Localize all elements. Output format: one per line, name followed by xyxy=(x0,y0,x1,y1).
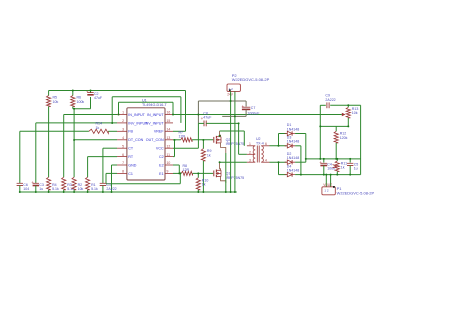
C7 ref label xyxy=(251,106,256,110)
wire VCC riser upper xyxy=(197,101,199,123)
wire output minus rail xyxy=(301,174,361,176)
U2 pin 3 stub xyxy=(247,158,255,162)
U1 pin 9 name xyxy=(159,172,163,176)
svg-text:1N4148: 1N4148 xyxy=(287,156,299,160)
U1 pin 15 name xyxy=(145,121,165,125)
wire R9 top lead xyxy=(202,140,204,149)
svg-text:1N4148: 1N4148 xyxy=(287,140,299,144)
wire R5 to R4 xyxy=(48,107,50,178)
C6 labels xyxy=(23,183,29,191)
R14 labels xyxy=(96,122,103,130)
svg-text:1N4148: 1N4148 xyxy=(287,169,299,173)
Q1 source lead xyxy=(221,176,226,183)
connector P2 body xyxy=(227,84,240,91)
wire to pin1 IN+ xyxy=(64,114,117,116)
svg-text:12R: 12R xyxy=(179,135,186,139)
svg-text:2A222: 2A222 xyxy=(325,98,335,102)
svg-text:C7: C7 xyxy=(251,106,256,110)
R13 labels xyxy=(352,107,359,115)
diode D4 xyxy=(285,172,295,176)
svg-text:120k: 120k xyxy=(340,136,348,140)
svg-text:1k: 1k xyxy=(341,166,345,170)
Q1 labels xyxy=(226,172,245,180)
U1 pin 3 name xyxy=(128,130,133,134)
wire R1 bottom xyxy=(87,190,89,192)
svg-text:5.1k: 5.1k xyxy=(91,187,98,191)
wire C5 bottom lead xyxy=(349,166,351,175)
wire C3 bottom xyxy=(35,186,37,193)
svg-text:3: 3 xyxy=(122,128,124,132)
wire C2 top lead xyxy=(90,91,92,93)
wire pin11 stubext xyxy=(173,156,175,158)
wire D3-D4 join xyxy=(300,146,302,175)
svg-text:2A222: 2A222 xyxy=(106,187,116,191)
wire R3 bottom xyxy=(63,190,65,192)
P2 value label xyxy=(232,77,270,82)
svg-text:WJ2EDGVC-5.08-2P: WJ2EDGVC-5.08-2P xyxy=(337,190,375,195)
svg-text:13: 13 xyxy=(167,136,171,140)
wire down to D4 xyxy=(278,162,280,174)
svg-text:GND: GND xyxy=(128,163,136,167)
wire to D4 anode xyxy=(279,174,287,176)
transformer U2 core xyxy=(257,146,259,163)
diode D2 xyxy=(285,160,295,164)
U1 pin 12 number xyxy=(167,144,171,148)
wire sources to ground xyxy=(225,153,227,192)
U1 pin 5 stub xyxy=(117,147,127,149)
wire to pin2 INV xyxy=(36,122,117,124)
svg-text:3: 3 xyxy=(249,158,251,162)
P1 reference label xyxy=(337,186,343,191)
P2 reference label xyxy=(232,73,238,78)
Q2 drain lead xyxy=(220,131,221,137)
svg-text:47uF: 47uF xyxy=(203,116,212,120)
svg-text:C1: C1 xyxy=(128,172,133,176)
wire 24V rail xyxy=(198,100,246,102)
wire RT xyxy=(88,156,117,158)
Q1 drain lead xyxy=(220,162,221,171)
capacitor C9 xyxy=(201,116,207,126)
wire D2 cathode xyxy=(295,161,306,163)
wire R2 bottom xyxy=(73,190,75,192)
wire C9 right lead xyxy=(206,122,238,124)
resistor R10 xyxy=(196,178,200,190)
wire C1 bottom xyxy=(102,186,104,193)
C3 labels xyxy=(39,183,44,191)
wire FB left xyxy=(20,130,89,132)
R6 labels xyxy=(77,96,85,104)
wire D1-D2 join xyxy=(305,134,307,163)
U1 pin 9 number xyxy=(167,170,169,174)
resistor R12 xyxy=(334,131,338,143)
wire feedback to R13 wiper xyxy=(173,114,342,116)
wire pin13 to R7 xyxy=(173,139,181,141)
svg-text:VOUT: VOUT xyxy=(323,183,332,187)
wire pin15 riser xyxy=(180,97,182,123)
U1 pin 4 number xyxy=(122,136,124,140)
wire to D1 anode xyxy=(279,133,287,135)
svg-text:VCC: VCC xyxy=(156,147,164,151)
U1 pin 13 number xyxy=(167,136,171,140)
wire R12 top net xyxy=(320,125,348,127)
wire FB to C6 xyxy=(19,131,21,183)
svg-text:8: 8 xyxy=(122,170,124,174)
svg-text:47uF: 47uF xyxy=(94,96,103,100)
resistor R4 xyxy=(47,177,51,190)
U1 pin 12 stub xyxy=(165,147,173,149)
U1 pin 6 number xyxy=(122,153,124,157)
wire GND drop xyxy=(111,165,113,192)
svg-text:100k: 100k xyxy=(77,100,85,104)
svg-text:E2: E2 xyxy=(159,163,163,167)
U1 pin 13 stub xyxy=(165,139,173,141)
wire C6 bottom xyxy=(19,186,21,193)
wire C5 top lead xyxy=(349,159,351,163)
wire GND pin stub xyxy=(112,164,118,166)
U1 pin 6 name xyxy=(128,155,134,159)
svg-text:1N4148: 1N4148 xyxy=(287,127,299,131)
D3 labels xyxy=(287,136,299,144)
wire CT to C1 xyxy=(102,148,104,183)
U1 pin 11 name xyxy=(159,155,164,159)
wire R13 bottom lead xyxy=(347,118,349,127)
wire R6-C2 junction xyxy=(73,108,91,110)
wire VREF top rail xyxy=(49,90,186,92)
svg-text:TX-4: TX-4 xyxy=(256,141,264,145)
wire pin8 down xyxy=(105,173,107,183)
wire CT xyxy=(103,147,117,149)
svg-text:10k: 10k xyxy=(53,100,59,104)
wire VREF riser xyxy=(185,91,187,132)
U1 pin 2 name xyxy=(128,121,148,125)
svg-text:TL494G-D16-T: TL494G-D16-T xyxy=(142,103,168,107)
svg-text:16: 16 xyxy=(167,111,171,115)
U1 pin 11 stub xyxy=(165,156,173,158)
diode D1 xyxy=(285,131,295,135)
wire R13 top lead xyxy=(347,105,349,107)
transistor Q1 xyxy=(214,170,221,178)
resistor R3 xyxy=(62,177,66,190)
wire R4 bottom xyxy=(48,190,50,192)
Q2 source lead xyxy=(221,143,226,154)
U1 pin 2 number xyxy=(122,119,124,123)
U1 pin 8 stub xyxy=(117,172,127,174)
wire softstart to R2/DT xyxy=(73,109,75,178)
svg-text:1k: 1k xyxy=(96,126,100,130)
P1 pin labels xyxy=(324,188,329,192)
U1 pin 14 stub xyxy=(165,130,173,132)
P2 pin1 dot xyxy=(229,89,231,91)
R11 labels xyxy=(341,161,347,169)
wire C7 top lead xyxy=(245,101,247,107)
transformer U2 labels xyxy=(256,137,264,145)
svg-text:10k: 10k xyxy=(352,111,358,115)
svg-text:7: 7 xyxy=(122,161,124,165)
U1 pin 3 stub xyxy=(117,130,127,132)
R3 labels xyxy=(67,183,74,191)
U1 pin 7 stub xyxy=(117,164,127,166)
wire pin11 riser xyxy=(174,140,176,157)
svg-text:+: + xyxy=(86,89,89,94)
wire pin16 over IC xyxy=(119,101,174,103)
wire R12 bottom lead xyxy=(335,143,337,159)
svg-text:14: 14 xyxy=(167,128,171,132)
resistor R8 xyxy=(181,171,192,175)
P1 value label xyxy=(337,190,375,195)
svg-text:C2: C2 xyxy=(159,155,164,159)
wire junction dots xyxy=(19,90,351,194)
wire C4 top lead xyxy=(323,159,325,163)
wire VCC riser lower xyxy=(197,123,199,148)
wire R11 bottom lead xyxy=(336,172,338,175)
svg-text:1 2: 1 2 xyxy=(324,188,329,192)
svg-text:RT: RT xyxy=(128,155,134,159)
capacitor C7 xyxy=(242,104,251,110)
IC U1 TL494G-D16-T body xyxy=(127,108,165,180)
wire Q1 drain to primary xyxy=(220,161,247,163)
C7 value label xyxy=(247,111,260,115)
U1 pin 10 number xyxy=(167,161,171,165)
wire primary top drop xyxy=(243,131,245,146)
wire DT_CON xyxy=(74,139,117,141)
wire pin16 down to pin1 xyxy=(118,102,120,114)
U1 pin 5 number xyxy=(122,144,124,148)
transistor Q2 xyxy=(214,136,221,144)
U1 pin 4 stub xyxy=(117,139,127,141)
resistor R14 xyxy=(89,129,108,133)
U2 pin 2 stub xyxy=(247,151,255,155)
wire R10 bottom xyxy=(197,190,199,192)
resistor R9 xyxy=(201,149,205,161)
svg-text:IN_INPUT: IN_INPUT xyxy=(128,113,145,117)
wire P2 pin2 ground xyxy=(234,91,236,192)
D2 labels xyxy=(287,152,299,160)
svg-text:1: 1 xyxy=(249,142,251,146)
svg-text:1: 1 xyxy=(122,111,124,115)
wire center tap riser xyxy=(238,123,240,154)
svg-text:10: 10 xyxy=(167,161,171,165)
svg-text:1000uF: 1000uF xyxy=(247,111,260,115)
R10 labels xyxy=(202,178,209,186)
R8 labels xyxy=(183,164,190,172)
U1 pin 16 number xyxy=(167,111,171,115)
U1 pin 5 name xyxy=(128,147,134,151)
wire center tap xyxy=(239,153,247,155)
svg-text:12: 12 xyxy=(167,144,171,148)
D1 labels xyxy=(287,123,299,131)
svg-text:WJ2EDGVC-5.08-2P: WJ2EDGVC-5.08-2P xyxy=(232,77,270,82)
wire R8 to Q1 gate xyxy=(193,172,214,174)
wire pin15 down to pin2 xyxy=(111,97,113,123)
svg-text:1k: 1k xyxy=(202,183,206,187)
wire RT to R1 xyxy=(87,157,89,178)
resistor R6 xyxy=(71,96,75,107)
C2 labels xyxy=(94,92,103,100)
U2 pin 4 stub xyxy=(261,158,269,162)
wire C8 to right loop xyxy=(330,104,360,106)
resistor R5 top lead xyxy=(48,91,50,96)
wire VCC xyxy=(173,147,198,149)
U1 pin 11 number xyxy=(167,153,171,157)
U1 pin 10 name xyxy=(159,163,163,167)
svg-text:6: 6 xyxy=(265,142,267,146)
wire pin15 over IC xyxy=(112,96,181,98)
resistor R7 xyxy=(181,138,192,142)
U1 pin 6 stub xyxy=(117,156,127,158)
wire secondary top to D3 xyxy=(270,145,287,147)
wire Q2 drain to primary xyxy=(220,130,245,132)
resistor R11 xyxy=(335,161,339,172)
wire secondary bot to D2 xyxy=(270,161,287,163)
wire R6 bottom xyxy=(72,107,74,109)
resistor R1 xyxy=(86,177,90,190)
U1 pin 13 name xyxy=(146,138,164,142)
wire output plus rail xyxy=(306,158,361,160)
capacitor C1 xyxy=(100,183,106,185)
U1 pin 2 stub xyxy=(117,122,127,124)
wire pin9 to R8 xyxy=(173,172,181,174)
resistor R13 xyxy=(346,107,350,118)
wire C4 bottom lead xyxy=(323,166,325,175)
svg-text:E1: E1 xyxy=(159,172,163,176)
svg-text:15: 15 xyxy=(167,119,171,123)
wire VREF stub extension xyxy=(173,130,186,132)
wire R12 top lead xyxy=(335,126,337,131)
U1 pin 9 stub xyxy=(165,172,173,174)
P2 net label 24V xyxy=(227,93,234,97)
wire D1 cathode xyxy=(295,133,306,135)
wire D4 cathode xyxy=(295,174,301,176)
wire pin8 up to E1 net xyxy=(179,173,181,183)
svg-text:5.1k: 5.1k xyxy=(52,187,59,191)
U1 pin 8 number xyxy=(122,170,124,174)
U1 pin 15 number xyxy=(167,119,171,123)
U1 pin 14 name xyxy=(154,130,164,134)
svg-text:2: 2 xyxy=(249,151,251,155)
C1 labels xyxy=(106,183,116,191)
P1 pin1 dot xyxy=(333,186,335,188)
wire pin16 riser xyxy=(172,102,174,114)
wire ground rail xyxy=(20,191,237,193)
svg-text:5: 5 xyxy=(122,144,124,148)
transformer U2 primary coil xyxy=(253,146,255,162)
wire to C8 xyxy=(320,104,326,106)
svg-text:1k: 1k xyxy=(207,153,211,157)
C4 labels xyxy=(327,162,335,170)
svg-text:+: + xyxy=(319,160,322,165)
R12 labels xyxy=(340,132,348,140)
wire P1 pin1 drop xyxy=(325,175,327,187)
R4 labels xyxy=(52,183,59,191)
wire up to D1 xyxy=(278,134,280,146)
C5 labels xyxy=(354,162,359,170)
U1 pin 7 name xyxy=(128,163,136,167)
svg-text:INV_INPUT: INV_INPUT xyxy=(145,121,165,125)
diode D3 xyxy=(285,144,295,148)
svg-text:CT: CT xyxy=(128,147,134,151)
connector P1 body xyxy=(322,187,335,195)
Q2 labels xyxy=(226,138,245,146)
U1 pin 15 stub xyxy=(165,122,173,124)
transformer U2 secondary coil xyxy=(261,146,263,162)
capacitor C8 xyxy=(327,102,329,108)
R1 labels xyxy=(91,183,98,191)
svg-text:2: 2 xyxy=(122,119,124,123)
svg-text:1u: 1u xyxy=(354,167,358,171)
U1 pin 16 stub xyxy=(165,114,173,116)
U1 pin 16 name xyxy=(147,113,164,117)
wire pin10 riser xyxy=(178,165,180,173)
U1 pin 1 name xyxy=(128,113,145,117)
svg-text:VREF: VREF xyxy=(154,130,164,134)
wire C7 to ground xyxy=(222,115,246,117)
svg-text:11: 11 xyxy=(167,153,171,157)
U1 pin 7 number xyxy=(122,161,124,165)
D4 labels xyxy=(287,164,299,172)
U1 reference label xyxy=(142,98,147,102)
wire R14 to FB pin xyxy=(108,130,117,132)
resistor R2 xyxy=(72,177,76,190)
svg-text:IN_INPUT: IN_INPUT xyxy=(147,113,164,117)
svg-text:4: 4 xyxy=(122,136,124,140)
wire pin1 to R3 xyxy=(63,115,65,178)
R7 labels xyxy=(179,130,186,138)
U1 pin 3 number xyxy=(122,128,124,132)
wire P1 pin2 drop xyxy=(330,175,332,187)
svg-text:9: 9 xyxy=(167,170,169,174)
P1 net label xyxy=(323,183,332,187)
U1 pin 4 name xyxy=(128,138,143,142)
U1 pin 1 stub xyxy=(117,114,127,116)
feedback wiper arrow xyxy=(342,113,346,116)
P2 pin labels xyxy=(229,87,234,91)
capacitor C6 xyxy=(17,183,23,185)
wire D3 cathode xyxy=(295,145,301,147)
R9 labels xyxy=(207,149,212,157)
U2 pin 1 stub xyxy=(247,142,255,146)
svg-text:1u: 1u xyxy=(39,187,43,191)
capacitor C5 xyxy=(347,163,353,165)
wire R9 bottom xyxy=(202,161,204,192)
U1 pin 1 number xyxy=(122,111,124,115)
U1 pin 14 number xyxy=(167,128,171,132)
C8b labels xyxy=(203,111,212,119)
R5 labels xyxy=(53,96,59,104)
wire pin2 to C3 xyxy=(35,123,37,183)
R11 wiper arrow xyxy=(333,165,337,168)
U1 pin 10 stub xyxy=(165,164,173,166)
wire right edge loop xyxy=(360,105,362,174)
resistor R6 top lead xyxy=(72,91,74,96)
resistor R5 xyxy=(47,96,51,107)
wire R11 top lead xyxy=(336,159,338,161)
wire C9 left lead xyxy=(198,122,204,124)
wire C7 bottom lead xyxy=(245,109,247,116)
U1 pin 12 name xyxy=(156,147,164,151)
svg-text:DT_CON: DT_CON xyxy=(128,138,143,142)
U1 value label xyxy=(142,103,168,107)
svg-text:4: 4 xyxy=(265,158,267,162)
capacitor C3 xyxy=(31,180,39,186)
svg-text:FB: FB xyxy=(128,130,133,134)
wire R10 top lead xyxy=(197,173,199,177)
svg-text:OUT_CON: OUT_CON xyxy=(146,138,164,142)
capacitor C2 xyxy=(86,89,94,95)
wire R7 to Q2 gate xyxy=(192,139,213,141)
R2 labels xyxy=(78,183,84,191)
capacitor C4 xyxy=(319,160,327,166)
wire pin8 left xyxy=(106,172,117,174)
